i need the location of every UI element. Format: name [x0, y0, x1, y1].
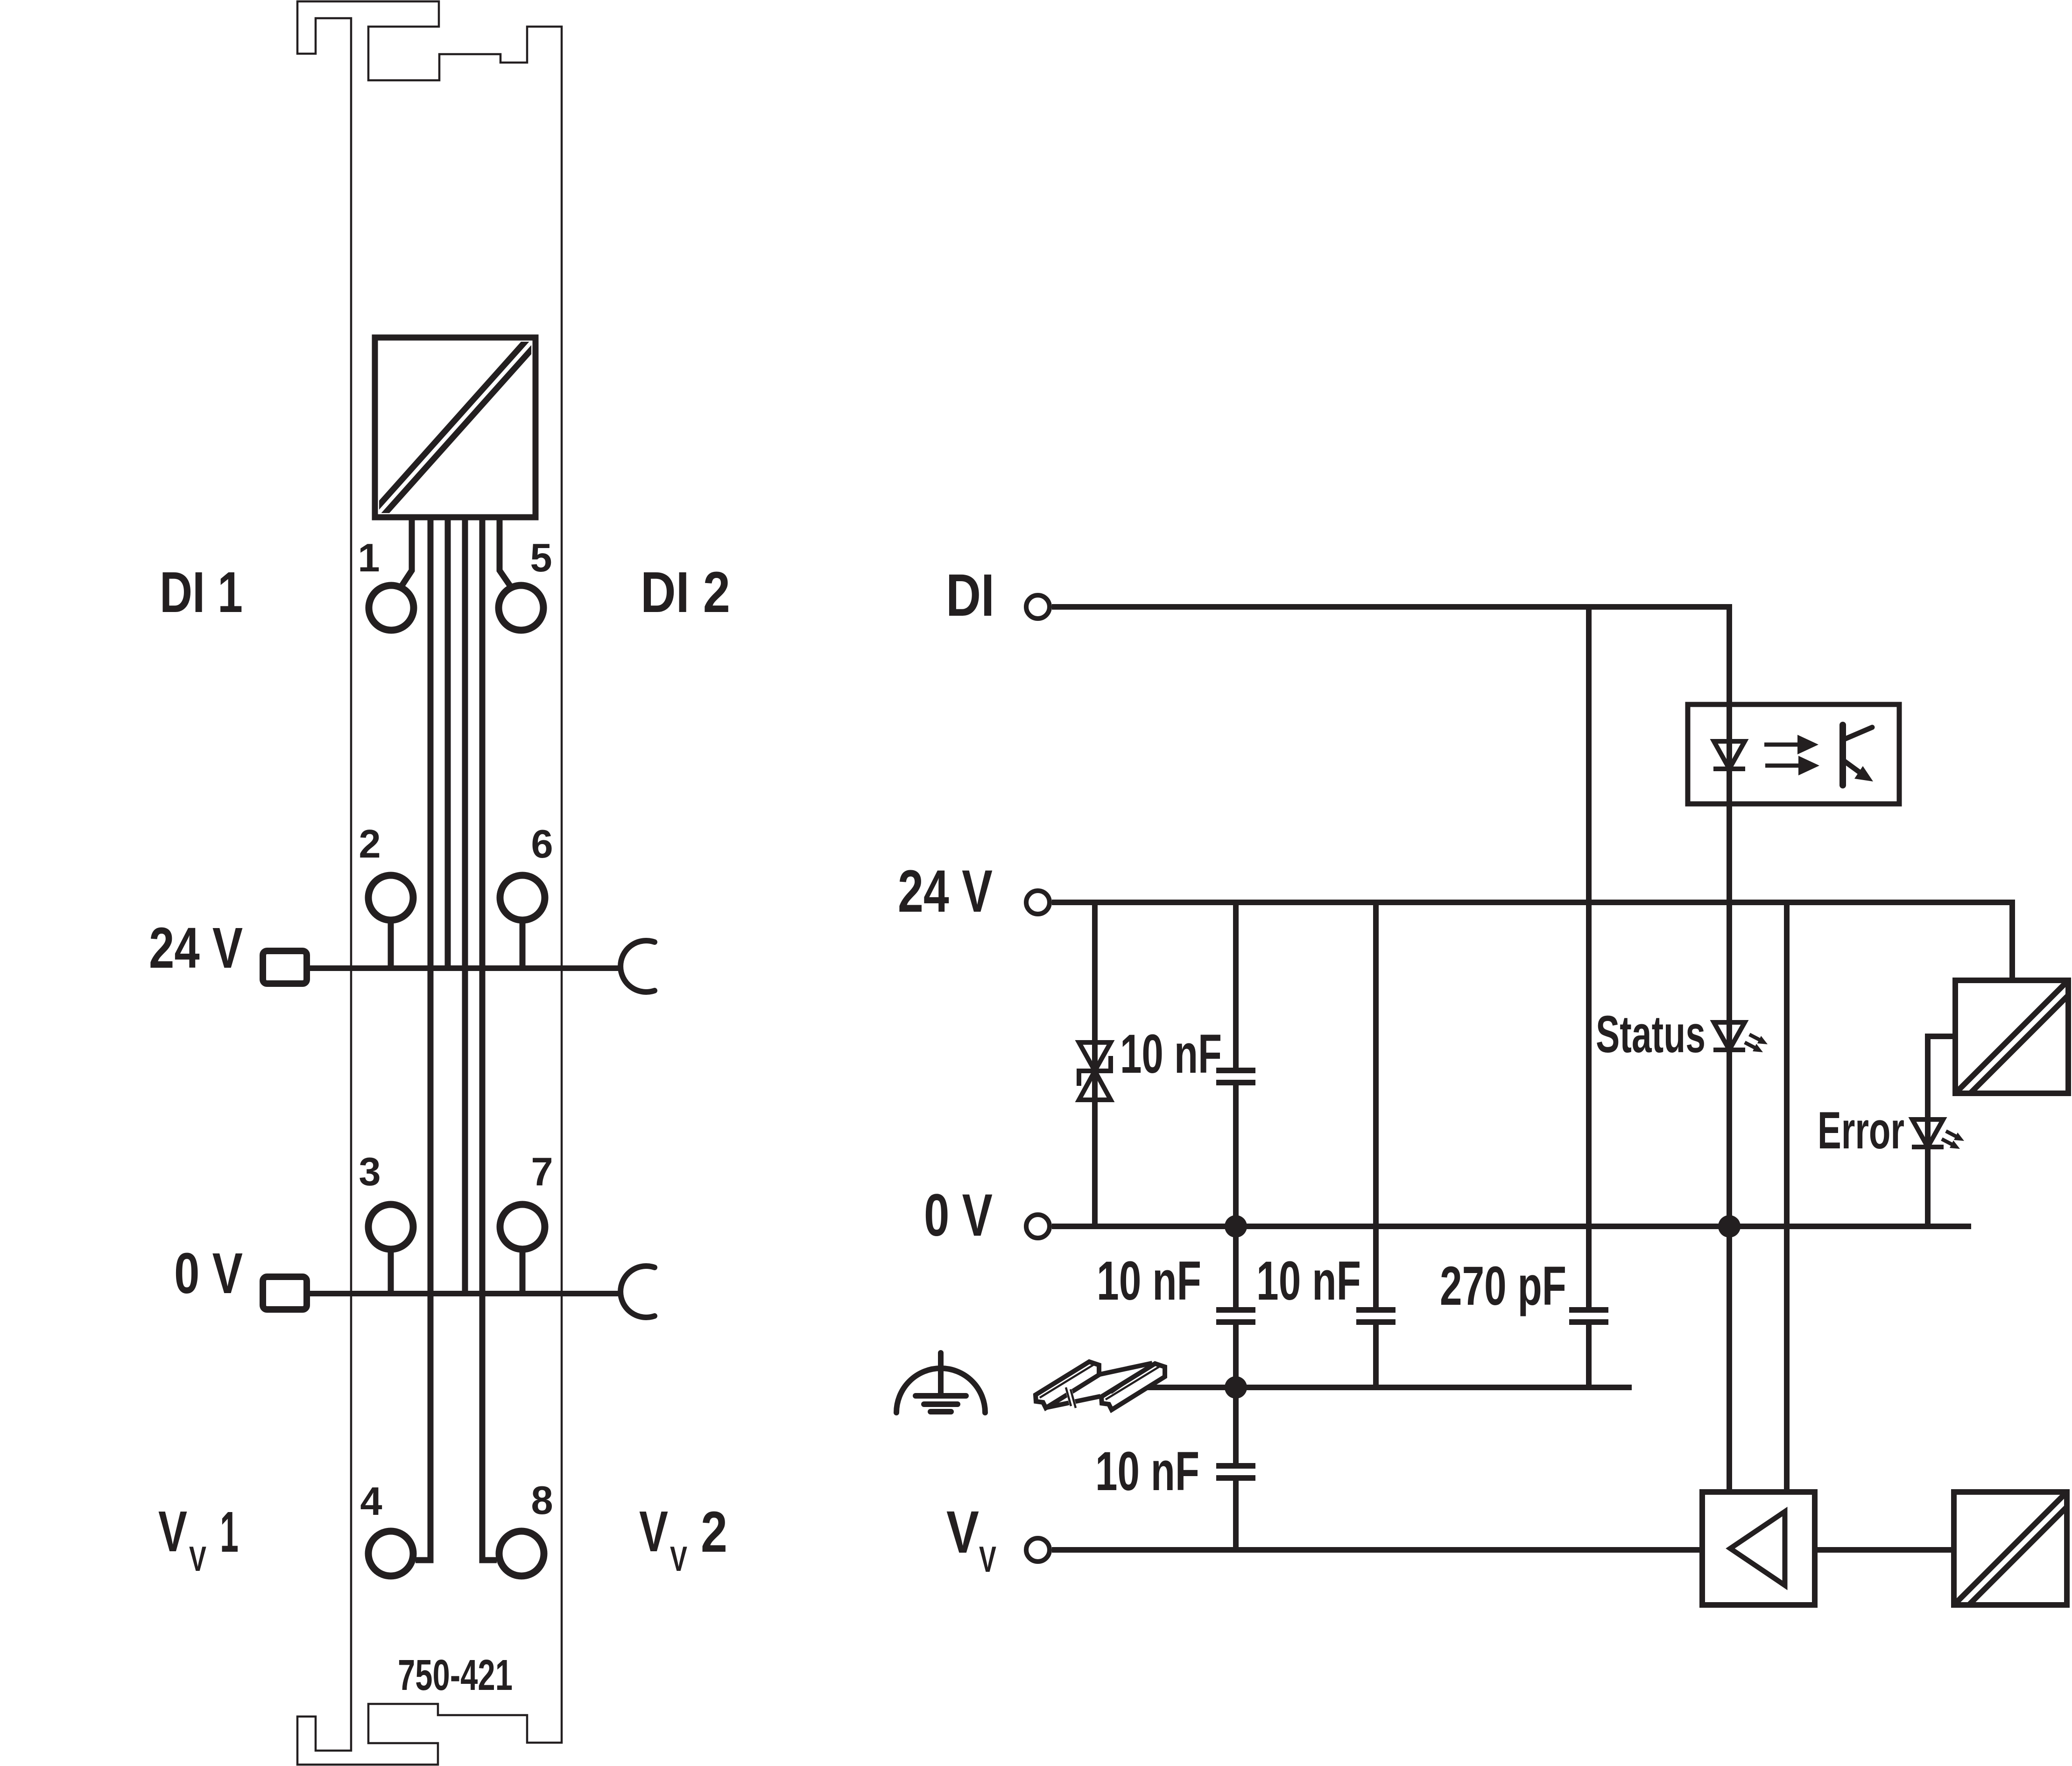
svg-text:DI 2: DI 2	[641, 561, 730, 625]
svg-text:270 pF: 270 pF	[1440, 1255, 1566, 1317]
svg-text:V: V	[670, 1539, 687, 1578]
svg-text:3: 3	[359, 1150, 381, 1194]
svg-text:Status: Status	[1596, 1005, 1706, 1063]
svg-text:4: 4	[360, 1479, 382, 1524]
svg-text:DI: DI	[946, 562, 994, 629]
svg-text:5: 5	[530, 536, 552, 580]
svg-text:1: 1	[358, 536, 380, 580]
svg-text:24 V: 24 V	[149, 916, 243, 980]
svg-text:V: V	[158, 1500, 187, 1564]
svg-text:0 V: 0 V	[174, 1242, 243, 1306]
svg-text:7: 7	[531, 1150, 553, 1194]
svg-text:10 nF: 10 nF	[1095, 1441, 1199, 1502]
svg-text:2: 2	[359, 822, 381, 866]
svg-text:8: 8	[531, 1478, 553, 1523]
svg-text:Error: Error	[1818, 1101, 1904, 1160]
svg-text:10 nF: 10 nF	[1097, 1250, 1201, 1312]
svg-text:V: V	[946, 1499, 979, 1566]
svg-text:750-421: 750-421	[398, 1651, 513, 1699]
svg-text:V: V	[189, 1539, 206, 1578]
svg-text:V: V	[979, 1539, 996, 1580]
svg-text:V: V	[639, 1500, 668, 1564]
svg-text:DI 1: DI 1	[160, 561, 243, 625]
svg-text:10 nF: 10 nF	[1120, 1023, 1222, 1085]
svg-text:24 V: 24 V	[898, 858, 993, 925]
svg-text:0 V: 0 V	[924, 1182, 993, 1249]
svg-text:1: 1	[220, 1500, 239, 1564]
svg-text:2: 2	[701, 1500, 727, 1564]
svg-text:6: 6	[531, 822, 553, 866]
svg-text:10 nF: 10 nF	[1256, 1250, 1361, 1312]
